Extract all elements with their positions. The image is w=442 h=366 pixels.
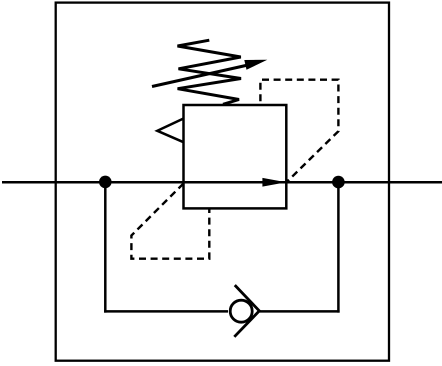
node B (outlet junction) [332,176,345,189]
regulator body U1 [184,105,287,208]
check valve V1: seat [234,285,259,337]
node A (inlet junction) [99,176,112,189]
enclosure outline [56,3,389,361]
check valve V1: ball [230,300,252,322]
pilot line (dashed) from outlet to diaphragm [131,184,209,259]
wire: bottom bypass right segment [260,310,340,313]
wire: main flow line [2,181,442,184]
wire: left bypass drop [104,182,107,313]
wire: right bypass drop [337,182,340,313]
wire: bottom bypass left segment [104,310,228,313]
relief vent triangle [157,119,183,143]
spring [178,40,242,104]
flow arrow inside regulator [262,178,286,187]
adjustment arrow [152,65,248,87]
pilot line (dashed) to spring chamber [260,80,338,183]
